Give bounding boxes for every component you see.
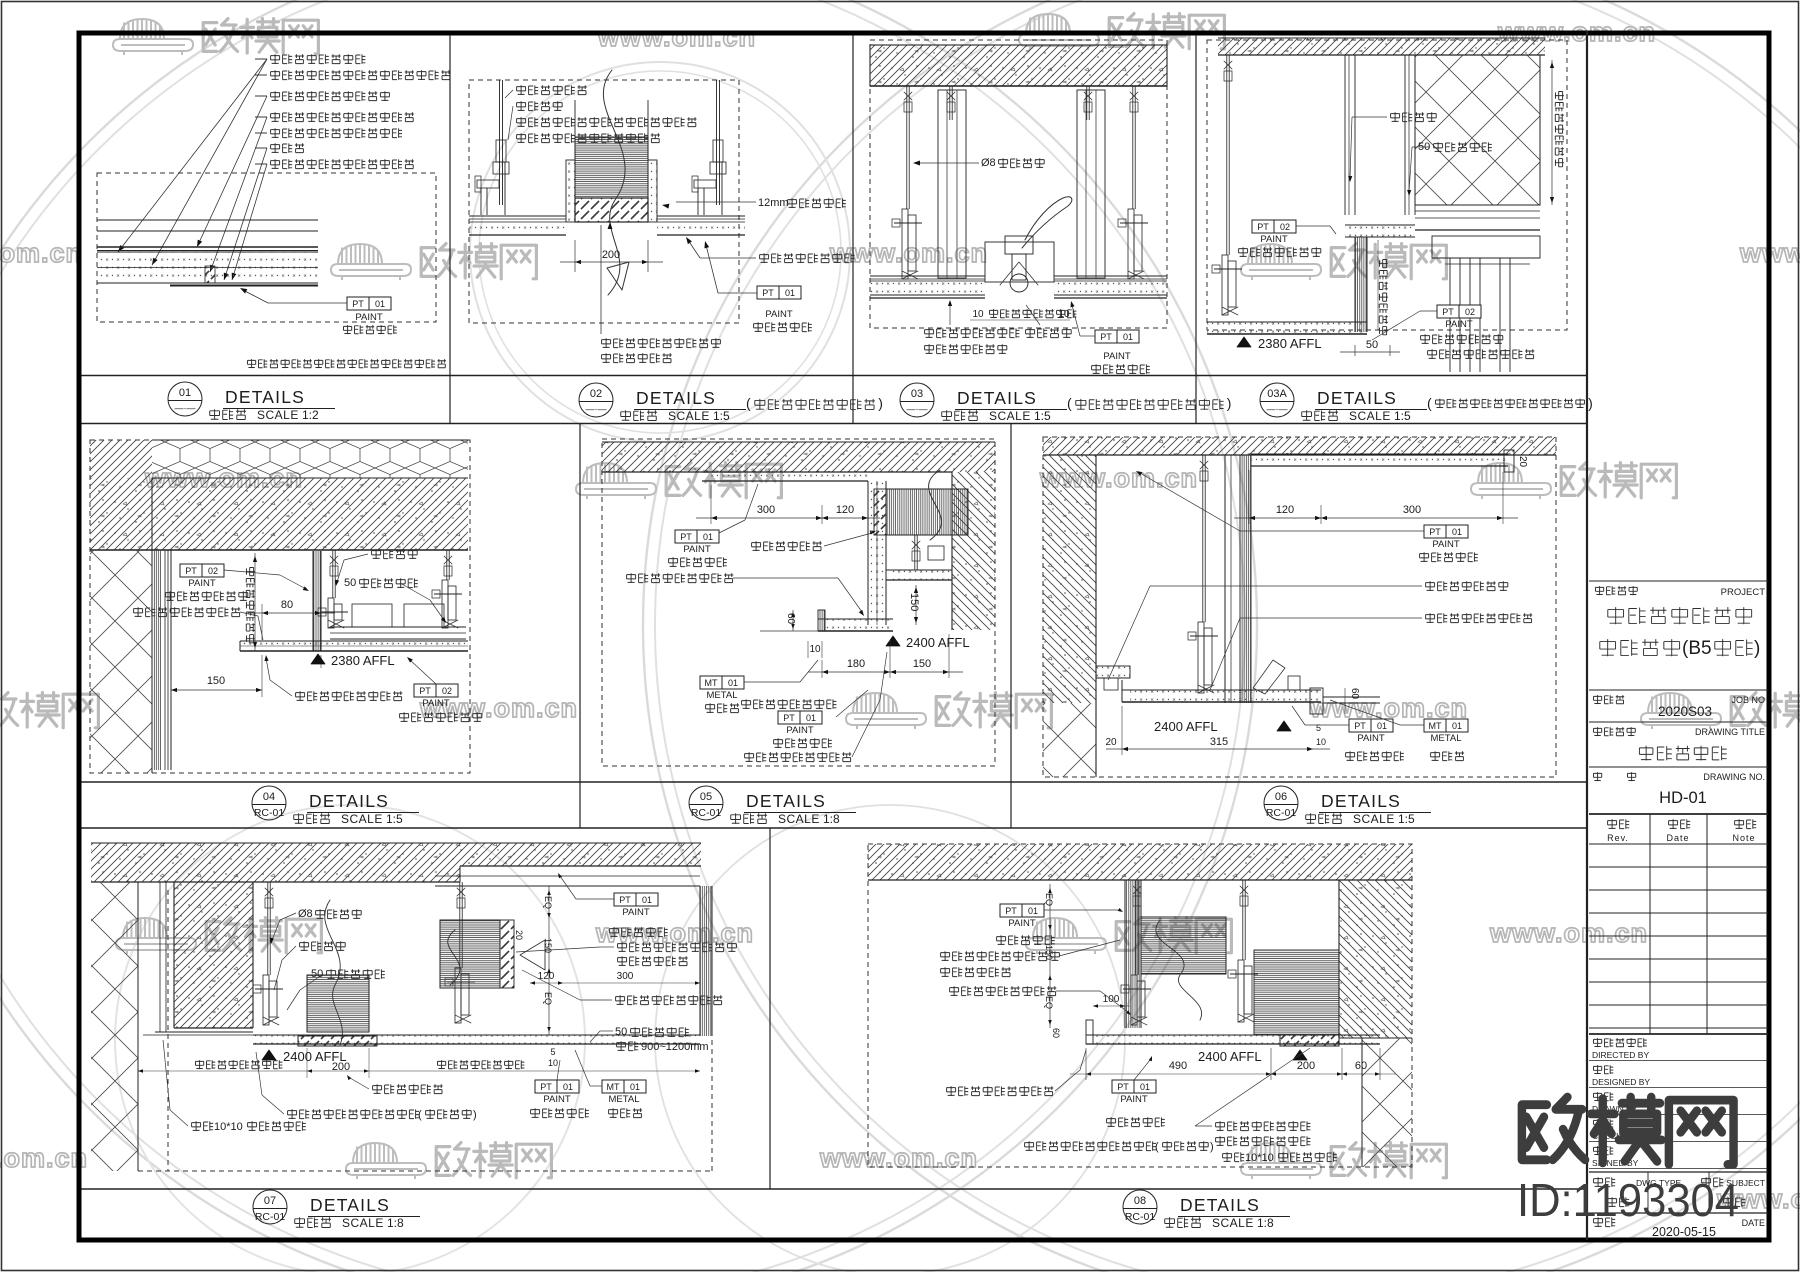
concrete slab: [90, 478, 468, 550]
detail title 04: [252, 786, 286, 820]
main lower ceiling: [825, 619, 893, 631]
svg-text:SCALE: SCALE: [1353, 812, 1395, 826]
svg-text:04: 04: [263, 791, 275, 803]
svg-text:06: 06: [1275, 791, 1287, 803]
slab: [868, 844, 1412, 880]
svg-text:10*10: 10*10: [1245, 1152, 1274, 1164]
svg-text:DETAILS: DETAILS: [1317, 388, 1397, 408]
svg-text:Ø8: Ø8: [981, 157, 996, 169]
svg-text:PAINT: PAINT: [1260, 234, 1287, 245]
watermark: big light circles: [0, 0, 1257, 1272]
svg-text:50: 50: [1366, 339, 1378, 351]
svg-text:12mm: 12mm: [758, 197, 789, 209]
svg-text:1:2: 1:2: [302, 408, 319, 422]
AFFL: [1237, 337, 1251, 347]
svg-text:(: (: [1155, 1141, 1159, 1153]
detail title 01: [168, 382, 202, 416]
svg-text:PT: PT: [1100, 332, 1112, 342]
svg-text:DETAILS: DETAILS: [225, 387, 305, 407]
svg-text:01: 01: [1377, 721, 1387, 731]
AFFL: [311, 654, 325, 664]
L-trim label: [745, 752, 852, 762]
svg-text:PT: PT: [1005, 906, 1017, 916]
dashed boundary: [97, 173, 436, 322]
svg-text:05: 05: [700, 791, 712, 803]
tag PT01 low: [1349, 719, 1393, 732]
labels top: [517, 85, 587, 95]
svg-text:60: 60: [1349, 688, 1360, 700]
concrete slab: [870, 45, 1167, 86]
svg-text:SCALE: SCALE: [341, 812, 383, 826]
svg-text:1:5: 1:5: [1398, 812, 1415, 826]
detail title 07: [253, 1190, 287, 1224]
paint tag PT01: [347, 297, 391, 310]
side plates: [566, 160, 575, 222]
svg-text:300: 300: [757, 504, 775, 516]
svg-text:07: 07: [264, 1195, 276, 1207]
svg-text:METAL: METAL: [707, 690, 738, 701]
tag PT02 left: [1252, 220, 1296, 233]
main ceiling band: [1130, 690, 1321, 702]
left wall: [1043, 455, 1096, 703]
svg-text:10*10: 10*10: [214, 1121, 243, 1133]
svg-text:PAINT: PAINT: [1008, 918, 1035, 929]
insulation band: [97, 252, 318, 283]
svg-text:01: 01: [630, 1082, 640, 1092]
EQ dims vertical: [1049, 884, 1051, 1028]
gypsum label: [742, 699, 837, 709]
hanger labels: [372, 549, 418, 559]
svg-text:2020S03: 2020S03: [1658, 704, 1712, 719]
svg-text:MT: MT: [705, 678, 718, 688]
svg-text:1:5: 1:5: [713, 409, 730, 423]
AFFL: [262, 1050, 276, 1060]
svg-text:10: 10: [972, 309, 984, 320]
hanger: [1202, 455, 1204, 622]
svg-text:02: 02: [208, 566, 218, 576]
svg-text:PAINT: PAINT: [1432, 539, 1459, 550]
svg-text:5: 5: [1316, 723, 1321, 733]
AFFL: [1293, 1050, 1307, 1060]
pipe label: [752, 541, 822, 551]
svg-text:EQ: EQ: [543, 992, 553, 1005]
svg-text:300: 300: [1403, 504, 1421, 516]
vertical channel: [1224, 455, 1226, 703]
svg-text:DETAILS: DETAILS: [957, 388, 1037, 408]
svg-text:10: 10: [1058, 309, 1070, 320]
right wall: [1339, 880, 1412, 1038]
svg-text:DETAILS: DETAILS: [1180, 1195, 1260, 1215]
svg-text:60: 60: [1355, 1060, 1367, 1072]
svg-text:): ): [1588, 395, 1593, 411]
vent box with grille: [575, 198, 648, 222]
svg-text:PAINT: PAINT: [786, 725, 813, 736]
svg-text:—·—: —·—: [1267, 404, 1288, 414]
svg-text:2380 AFFL: 2380 AFFL: [331, 653, 395, 668]
svg-text:1:5: 1:5: [386, 812, 403, 826]
svg-text:20: 20: [1105, 737, 1117, 748]
left hanger: [1226, 55, 1228, 255]
svg-text:2400 AFFL: 2400 AFFL: [906, 635, 970, 650]
top right ceiling band: [1251, 454, 1508, 466]
svg-text:50: 50: [615, 1026, 627, 1038]
svg-text:DRAWING TITLE: DRAWING TITLE: [1695, 727, 1765, 737]
detail title 03A: [1260, 383, 1294, 417]
slab band: [1043, 437, 1556, 455]
kraft paper block: [205, 266, 215, 283]
title strip lines: [81, 375, 1587, 377]
wall furring strip: [153, 550, 162, 770]
svg-text:DETAILS: DETAILS: [746, 791, 826, 811]
svg-text:20: 20: [1517, 456, 1528, 468]
svg-text:03: 03: [911, 388, 923, 400]
svg-text:): ): [1210, 1141, 1214, 1153]
vertical channels: [1344, 55, 1346, 215]
bottom labels: [925, 328, 1020, 338]
label gypsum: [760, 253, 855, 263]
svg-text:): ): [1227, 395, 1232, 411]
svg-text:METAL: METAL: [1431, 733, 1462, 744]
svg-text:DETAILS: DETAILS: [1321, 791, 1401, 811]
svg-text:PT: PT: [1354, 721, 1366, 731]
svg-text:PT: PT: [1442, 307, 1454, 317]
window frame: [1415, 204, 1540, 206]
svg-text:PAINT: PAINT: [1445, 319, 1472, 330]
tag PT01 top: [1424, 525, 1468, 538]
svg-text:SCALE: SCALE: [668, 409, 710, 423]
dim 200: [574, 240, 576, 272]
labels panel01: [271, 54, 366, 64]
svg-text:RC-01: RC-01: [255, 1211, 286, 1223]
lower labels: [947, 1086, 1054, 1096]
svg-text:02: 02: [442, 686, 452, 696]
dims 315 20 5 10: [1121, 706, 1123, 755]
svg-text:PT: PT: [783, 713, 795, 723]
left wall diamond: [91, 882, 138, 1171]
diamond hatch wall: [1415, 55, 1540, 205]
wall shelf: [1096, 666, 1130, 678]
svg-text:490: 490: [1169, 1060, 1187, 1072]
S curve: [603, 70, 625, 295]
svg-text:PT: PT: [1257, 222, 1269, 232]
LED label: [134, 607, 241, 617]
svg-text:PT: PT: [419, 686, 431, 696]
tag MT01: [1424, 719, 1468, 732]
detail title 03: [900, 383, 934, 417]
vertical drop: [868, 481, 886, 625]
detail title 02: [579, 383, 613, 417]
svg-text:01: 01: [1123, 332, 1133, 342]
board assembly lines: [97, 219, 318, 221]
note text: [247, 359, 445, 368]
left vent assembly: [1125, 880, 1141, 1028]
dims 120 300: [1248, 470, 1250, 524]
duct + vent: [307, 975, 369, 1032]
detail title 08: [1123, 1190, 1157, 1224]
svg-text:PT: PT: [540, 1082, 552, 1092]
svg-text:): ): [473, 1109, 477, 1121]
right lower ceiling: [890, 570, 952, 580]
hanger rods: [499, 80, 501, 205]
svg-text:Date: Date: [1666, 833, 1689, 843]
tag MT01: [700, 676, 744, 689]
ceiling boards: [870, 275, 985, 277]
dims 490 200 60: [1085, 1048, 1087, 1080]
dim 150: [170, 680, 172, 697]
svg-text:PAINT: PAINT: [188, 578, 215, 589]
bottom dims: [195, 1060, 282, 1069]
svg-text:315: 315: [1210, 736, 1228, 748]
honeycomb floor band: [152, 440, 468, 478]
svg-text:2380 AFFL: 2380 AFFL: [1258, 336, 1322, 351]
svg-text:60: 60: [785, 613, 796, 625]
svg-text:10: 10: [809, 644, 821, 655]
title block: [1589, 580, 1768, 582]
svg-text:PAINT: PAINT: [1120, 1094, 1147, 1105]
svg-text:2400 AFFL: 2400 AFFL: [1154, 719, 1218, 734]
svg-text:300: 300: [617, 971, 634, 982]
L-trim label: [296, 691, 403, 701]
svg-text:Ø8: Ø8: [298, 908, 313, 920]
svg-text:DATE: DATE: [1742, 1218, 1765, 1228]
slab band: [602, 442, 995, 472]
tag PT01: [757, 286, 801, 299]
tag PT02 right: [414, 684, 458, 697]
concrete beam: [174, 882, 253, 1028]
lamp bits: [1253, 660, 1285, 694]
dim 50: [1354, 345, 1356, 356]
vertical dim texts: [1379, 259, 1388, 334]
svg-text:01: 01: [728, 678, 738, 688]
ceiling board: [240, 641, 468, 651]
dim 150 vert: [915, 585, 917, 625]
svg-text:120: 120: [1276, 504, 1294, 516]
svg-text:02: 02: [1465, 307, 1475, 317]
svg-text:PAINT: PAINT: [765, 309, 792, 320]
lower labels: [373, 1084, 443, 1094]
top-fixed band right: [435, 875, 700, 877]
detail 05: stepped gypsum ceiling 1:8: [602, 439, 995, 766]
svg-text:03A: 03A: [1267, 388, 1287, 400]
detail 03A: bathroom ceiling vs window: [1207, 40, 1567, 330]
title block separator: [1586, 31, 1588, 1240]
tag PT01: [1095, 330, 1139, 343]
upper labels: [1000, 904, 1044, 917]
svg-text:900~1200mm: 900~1200mm: [641, 1041, 709, 1053]
svg-text:SCALE: SCALE: [778, 812, 820, 826]
ceiling band: [253, 1035, 700, 1044]
slab band: [1218, 38, 1545, 55]
svg-text:200: 200: [602, 249, 620, 261]
svg-text:RC-01: RC-01: [1266, 807, 1297, 819]
svg-text:08: 08: [1134, 1195, 1146, 1207]
svg-text:2020-05-15: 2020-05-15: [1652, 1225, 1716, 1239]
bulkhead vertical: [313, 551, 321, 651]
dims 180 150: [821, 660, 823, 678]
vent grille in band: [1280, 1035, 1339, 1046]
detail title 06: [1264, 786, 1298, 820]
svg-text:150: 150: [908, 593, 920, 611]
svg-text:150: 150: [913, 658, 931, 670]
svg-text:EQ: EQ: [1044, 893, 1054, 906]
svg-text:DETAILS: DETAILS: [309, 791, 389, 811]
svg-text:80: 80: [281, 599, 293, 611]
AFFL: [886, 636, 900, 646]
svg-text:PAINT: PAINT: [1103, 351, 1130, 362]
svg-text:50: 50: [344, 577, 356, 589]
svg-text:SCALE: SCALE: [989, 409, 1031, 423]
vertical channels: [938, 90, 966, 278]
main runner band: [330, 626, 466, 628]
detail 08: RC-01 drop ceiling with vent 1:8: [868, 844, 1412, 1167]
svg-text:02: 02: [1280, 222, 1290, 232]
detail title 05: [689, 786, 723, 820]
detail 06: ceiling with picture rail 1:5: [1043, 437, 1556, 777]
svg-text:Note: Note: [1732, 833, 1755, 843]
svg-text:DETAILS: DETAILS: [310, 1195, 390, 1215]
tag PT01: [675, 530, 719, 543]
detail 03: recessed light in double gypsum: [870, 40, 1167, 328]
leader lines: [118, 59, 267, 252]
svg-text:2400 AFFL: 2400 AFFL: [1198, 1049, 1262, 1064]
svg-text:10: 10: [548, 1058, 558, 1068]
svg-text:01: 01: [1452, 527, 1462, 537]
dim 60: [792, 610, 794, 631]
svg-text:01: 01: [1140, 1082, 1150, 1092]
svg-text:200: 200: [1297, 1060, 1315, 1072]
hangers: [1135, 880, 1137, 975]
svg-text:HD-01: HD-01: [1659, 789, 1707, 807]
svg-text:01: 01: [785, 288, 795, 298]
svg-text:120: 120: [836, 504, 854, 516]
svg-text:PAINT: PAINT: [622, 907, 649, 918]
panel dividers: [449, 35, 451, 424]
svg-text:RC-01: RC-01: [1125, 1211, 1156, 1223]
svg-text:EQ: EQ: [543, 896, 553, 909]
EQ dim vertical: [548, 886, 550, 1035]
dashed boundary: [167, 890, 169, 1171]
watermark: tiled sofa logos and www.om.cn: [113, 19, 318, 55]
svg-text:ID:1193304: ID:1193304: [1517, 1174, 1739, 1226]
svg-text:1:5: 1:5: [1034, 409, 1051, 423]
svg-text:PT: PT: [1429, 527, 1441, 537]
svg-text:150: 150: [207, 675, 225, 687]
svg-text:PT: PT: [1117, 1082, 1129, 1092]
dim 80: [261, 604, 263, 640]
svg-text:PAINT: PAINT: [683, 544, 710, 555]
big open arrow: [607, 262, 629, 290]
svg-text:01: 01: [806, 713, 816, 723]
hangers: [332, 550, 334, 598]
svg-text:1:8: 1:8: [387, 1216, 404, 1230]
dims 300 120: [710, 485, 712, 524]
svg-text:METAL: METAL: [609, 1094, 640, 1105]
svg-text:—·—: —·—: [175, 403, 196, 413]
svg-text:(: (: [1427, 395, 1432, 411]
svg-text:10: 10: [1316, 737, 1326, 747]
svg-text:—·—: —·—: [907, 404, 928, 414]
svg-text:): ): [1754, 638, 1760, 659]
picture rail label: [1426, 581, 1508, 591]
svg-text:JOB NO: JOB NO: [1731, 695, 1765, 705]
tag PT02 right: [1437, 305, 1481, 318]
LED label: [1426, 613, 1533, 623]
svg-text:PAINT: PAINT: [543, 1094, 570, 1105]
upper ceiling band: [711, 472, 868, 481]
svg-text:1:8: 1:8: [823, 812, 840, 826]
big dark watermark OMW + ID: [1522, 1097, 1734, 1164]
ceiling with drop: [1345, 225, 1415, 237]
svg-text:DETAILS: DETAILS: [636, 388, 716, 408]
tag PT01 low: [778, 711, 822, 724]
vertical dim: [254, 553, 256, 651]
svg-text:150: 150: [543, 938, 553, 953]
svg-text:01: 01: [703, 532, 713, 542]
svg-text:DESIGNED BY: DESIGNED BY: [1592, 1077, 1650, 1087]
svg-text:02: 02: [590, 388, 602, 400]
LED label: [627, 573, 734, 583]
svg-text:(: (: [1067, 395, 1072, 411]
svg-text:PAINT: PAINT: [422, 698, 449, 709]
svg-text:01: 01: [1028, 906, 1038, 916]
svg-text:PT: PT: [619, 895, 631, 905]
svg-text:01: 01: [1452, 721, 1462, 731]
bottom labels: [602, 338, 721, 348]
right labels: [614, 893, 658, 906]
ceiling band: [1093, 1035, 1380, 1044]
hanger rods: [906, 86, 908, 209]
svg-text:): ): [878, 395, 883, 411]
svg-text:01: 01: [563, 1082, 573, 1092]
pipe through wall: [886, 489, 968, 535]
slab: [91, 843, 460, 882]
light fixture: [985, 242, 1054, 282]
svg-text:1:8: 1:8: [1257, 1216, 1274, 1230]
svg-text:RC-01: RC-01: [254, 807, 285, 819]
svg-text:DIRECTED BY: DIRECTED BY: [1592, 1050, 1649, 1060]
flex duct: [575, 137, 648, 198]
svg-text:20: 20: [514, 930, 524, 940]
left wall diamond: [90, 550, 152, 773]
svg-text:120: 120: [538, 971, 555, 982]
svg-text:1:5: 1:5: [1394, 409, 1411, 423]
svg-text:(: (: [746, 395, 751, 411]
svg-text:SCALE: SCALE: [1212, 1216, 1254, 1230]
svg-text:(B5: (B5: [1682, 638, 1712, 659]
svg-text:EQ: EQ: [1044, 996, 1054, 1009]
right wall: [952, 472, 995, 630]
svg-text:60: 60: [1051, 1028, 1061, 1038]
svg-text:01: 01: [179, 387, 191, 399]
right vent assembly: [440, 920, 500, 988]
hangers: [267, 882, 269, 975]
svg-text:—·—: —·—: [586, 404, 607, 414]
svg-text:5: 5: [550, 1047, 555, 1057]
svg-text:MT: MT: [1429, 721, 1442, 731]
svg-text:PT: PT: [185, 566, 197, 576]
svg-text:MT: MT: [607, 1082, 620, 1092]
svg-text:PT: PT: [352, 299, 364, 309]
svg-text:PROJECT: PROJECT: [1721, 587, 1766, 598]
svg-text:RC-01: RC-01: [691, 807, 722, 819]
svg-text:01: 01: [642, 895, 652, 905]
svg-text:SCALE: SCALE: [342, 1216, 384, 1230]
svg-text:Rev.: Rev.: [1607, 833, 1629, 843]
svg-text:180: 180: [847, 658, 865, 670]
svg-text:SCALE: SCALE: [257, 408, 299, 422]
svg-text:DRAWING NO.: DRAWING NO.: [1703, 772, 1765, 782]
svg-text:01: 01: [375, 299, 385, 309]
